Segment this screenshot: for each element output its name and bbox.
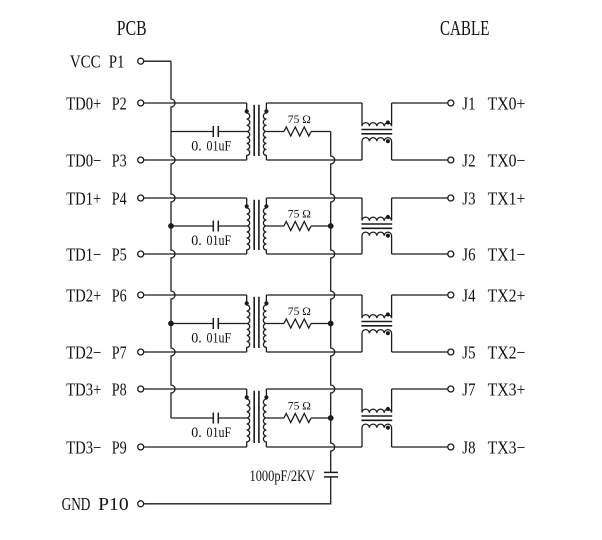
label TD1− P5: [66, 244, 127, 264]
wire T1 secondary top to choke L1: [266, 102, 362, 104]
label J8 TX3−: [462, 437, 525, 457]
junction dot left bus / C2 branch: [168, 223, 174, 229]
transformer T1 primary winding: [247, 103, 250, 160]
label J1 TX0+: [462, 93, 525, 113]
transformer T2 secondary winding: [263, 198, 266, 254]
svg-text:75 Ω: 75 Ω: [288, 304, 311, 318]
svg-text:VCC: VCC: [70, 51, 101, 71]
svg-text:J7: J7: [462, 379, 475, 399]
capacitor C5 bottom plate: [324, 476, 338, 478]
choke L1 bottom phase dot: [386, 139, 390, 143]
wire P7 to transformer T3 primary bottom: [144, 351, 247, 353]
wire C2 to T2 primary center tap: [218, 225, 246, 227]
wire C1 to T1 primary center tap: [218, 131, 246, 133]
svg-text:01uF: 01uF: [207, 425, 232, 441]
capacitor C2 left plate: [212, 221, 214, 232]
wire T3 secondary bottom to choke L3: [266, 351, 362, 353]
transformer T2 primary winding: [247, 198, 250, 254]
wire C4 to T4 primary center tap: [218, 417, 246, 419]
label J4 TX2+: [462, 285, 525, 305]
choke L4 bottom phase dot: [386, 426, 390, 430]
svg-text:TD0−: TD0−: [66, 150, 101, 170]
svg-text:TD3−: TD3−: [66, 437, 101, 457]
svg-text:75 Ω: 75 Ω: [288, 207, 311, 221]
svg-text:TX2−: TX2−: [488, 342, 526, 362]
svg-text:TX0+: TX0+: [488, 93, 526, 113]
choke L2 top phase dot: [386, 215, 390, 219]
svg-text:TD1+: TD1+: [66, 188, 101, 208]
wire choke L1 to J2: [392, 159, 448, 161]
terminal J5 (TX2−): [448, 349, 454, 355]
capacitor C3 left plate: [212, 318, 214, 329]
choke L3 core line 2: [361, 325, 392, 327]
wire left bus to C1: [171, 131, 213, 133]
svg-text:J4: J4: [462, 285, 475, 305]
resistor R2 75 ohm: [284, 222, 311, 231]
choke L3 bottom phase dot: [386, 331, 390, 335]
svg-text:01uF: 01uF: [207, 233, 232, 249]
label J2 TX0−: [462, 150, 525, 170]
transformer T1 core line 2: [258, 105, 260, 156]
capacitor C4 right plate: [217, 413, 219, 424]
wire left bus to C3: [171, 323, 213, 325]
capacitor C3 right plate: [217, 318, 219, 329]
junction dot right bus / R3: [328, 321, 334, 327]
junction dot right bus / R4: [328, 415, 334, 421]
wire left bus to C2: [171, 225, 213, 227]
wire P6 to transformer T3 primary top: [144, 294, 247, 296]
transformer T2 secondary phase dot: [264, 204, 268, 208]
terminal P5 (TD1−): [138, 251, 144, 257]
transformer T4 primary winding: [247, 389, 250, 447]
transformer T4 core line 1: [253, 391, 255, 443]
wire P4 to transformer T2 primary top: [144, 197, 247, 199]
svg-text:TD1−: TD1−: [66, 244, 101, 264]
label J5 TX2−: [462, 342, 525, 362]
label TD1+ P4: [66, 188, 127, 208]
wire right termination bus (vertical, hops over signal lines): [331, 132, 335, 473]
svg-text:J8: J8: [462, 437, 475, 457]
wire C3 to T3 primary center tap: [218, 323, 246, 325]
svg-text:TD3+: TD3+: [66, 379, 101, 399]
wire T4 secondary top to choke L4: [266, 388, 362, 390]
label TD3− P9: [66, 437, 127, 457]
wire choke L2 to J6: [392, 253, 448, 255]
choke L2 core line 1: [361, 223, 392, 225]
wire choke L2 to J3: [392, 197, 448, 199]
terminal P1 (VCC): [138, 58, 144, 64]
label C4 value 0.01uF: [191, 425, 231, 441]
choke L4 top winding: [362, 389, 392, 413]
transformer T3 primary winding: [247, 295, 250, 352]
svg-text:P4: P4: [112, 188, 127, 208]
wire T1 secondary bottom to choke L1: [266, 159, 362, 161]
label TD3+ P8: [66, 379, 127, 399]
wire R4 to right bus: [311, 417, 331, 419]
terminal J3 (TX1+): [448, 195, 454, 201]
label TD0+ P2: [66, 93, 127, 113]
terminal P7 (TD2−): [138, 349, 144, 355]
svg-text:P6: P6: [112, 285, 127, 305]
wire choke L3 to J4: [392, 294, 448, 296]
choke L1 top phase dot: [386, 120, 390, 124]
svg-text:75 Ω: 75 Ω: [288, 399, 311, 413]
transformer T2 core line 1: [253, 200, 255, 250]
choke L2 bottom winding: [362, 232, 392, 254]
transformer T1 secondary winding: [263, 103, 266, 160]
transformer T4 secondary phase dot: [264, 395, 268, 399]
terminal P2 (TD0+): [138, 100, 144, 106]
transformer T2 core line 2: [258, 200, 260, 250]
choke L3 bottom winding: [362, 330, 392, 352]
wire choke L1 to J1: [392, 102, 448, 104]
svg-text:P1: P1: [109, 51, 125, 71]
wire left VCC bus (vertical, hops over TD lines): [171, 61, 175, 418]
transformer T1 core line 1: [253, 105, 255, 156]
label TD2− P7: [66, 342, 127, 362]
svg-text:TX0−: TX0−: [488, 150, 526, 170]
svg-text:TX3−: TX3−: [488, 437, 526, 457]
label C3 value 0.01uF: [191, 331, 231, 347]
wire choke L3 to J5: [392, 351, 448, 353]
transformer T3 secondary phase dot: [264, 301, 268, 305]
choke L2 top winding: [362, 198, 392, 221]
transformer T3 core line 1: [253, 297, 255, 348]
svg-text:01uF: 01uF: [207, 139, 232, 155]
svg-text:01uF: 01uF: [207, 331, 232, 347]
terminal J8 (TX3−): [448, 444, 454, 450]
svg-text:J6: J6: [462, 244, 475, 264]
svg-text:TX1−: TX1−: [488, 244, 526, 264]
terminal P3 (TD0−): [138, 157, 144, 163]
transformer T3 secondary winding: [263, 295, 266, 352]
svg-text:P3: P3: [112, 150, 127, 170]
transformer T1 primary phase dot: [245, 109, 249, 113]
terminal J2 (TX0−): [448, 157, 454, 163]
capacitor C1 left plate: [212, 126, 214, 137]
wire VCC P1 to left bus: [144, 60, 171, 62]
svg-text:J2: J2: [462, 150, 475, 170]
label VCC P1: [70, 51, 125, 71]
terminal P6 (TD2+): [138, 292, 144, 298]
label J7 TX3+: [462, 379, 525, 399]
wire P2 to transformer T1 primary top: [144, 102, 247, 104]
wire T2 secondary center tap to R2: [266, 225, 284, 227]
choke L2 core line 2: [361, 227, 392, 229]
transformer T3 core line 2: [258, 297, 260, 348]
choke L3 top winding: [362, 295, 392, 318]
terminal P4 (TD1+): [138, 195, 144, 201]
resistor R3 75 ohm: [284, 319, 311, 328]
junction dot left bus / C3 branch: [168, 321, 174, 327]
choke L1 core line 2: [361, 133, 392, 135]
transformer T4 core line 2: [258, 391, 260, 443]
wire choke L4 to J7: [392, 388, 448, 390]
transformer T1 secondary phase dot: [264, 109, 268, 113]
transformer T3 primary phase dot: [245, 301, 249, 305]
svg-text:P9: P9: [112, 437, 127, 457]
svg-text:75 Ω: 75 Ω: [288, 112, 311, 126]
svg-text:PCB: PCB: [117, 16, 147, 40]
svg-text:0.: 0.: [191, 139, 202, 155]
wire choke L4 to J8: [392, 446, 448, 448]
terminal J1 (TX0+): [448, 100, 454, 106]
wire P5 to transformer T2 primary bottom: [144, 253, 247, 255]
wire T4 secondary center tap to R4: [266, 417, 284, 419]
svg-text:P10: P10: [98, 494, 128, 514]
terminal J7 (TX3+): [448, 386, 454, 392]
label GND P10: [62, 494, 129, 514]
wire P3 to transformer T1 primary bottom: [144, 159, 247, 161]
svg-text:TD2+: TD2+: [66, 285, 101, 305]
label TD0− P3: [66, 150, 127, 170]
wire T4 secondary bottom to choke L4: [266, 446, 362, 448]
transformer T2 primary phase dot: [245, 204, 249, 208]
svg-text:P8: P8: [112, 379, 127, 399]
resistor R4 75 ohm: [284, 414, 311, 423]
label TD2+ P6: [66, 285, 127, 305]
svg-text:P5: P5: [112, 244, 127, 264]
wire R3 to right bus: [311, 323, 331, 325]
svg-text:0.: 0.: [191, 233, 202, 249]
resistor R1 75 ohm: [284, 127, 311, 136]
terminal J4 (TX2+): [448, 292, 454, 298]
capacitor C2 right plate: [217, 221, 219, 232]
svg-text:1000pF/2KV: 1000pF/2KV: [250, 468, 316, 485]
wire GND P10 to C5: [144, 477, 331, 504]
wire T2 secondary top to choke L2: [266, 197, 362, 199]
choke L4 core line 1: [361, 415, 392, 417]
svg-text:TX3+: TX3+: [488, 379, 526, 399]
svg-text:TX1+: TX1+: [488, 188, 526, 208]
terminal J6 (TX1−): [448, 251, 454, 257]
wire R2 to right bus: [311, 225, 331, 227]
svg-text:0.: 0.: [191, 425, 202, 441]
wire T3 secondary center tap to R3: [266, 323, 284, 325]
wire R1 to right bus: [311, 131, 331, 133]
label C2 value 0.01uF: [191, 233, 231, 249]
wire T3 secondary top to choke L3: [266, 294, 362, 296]
svg-text:TX2+: TX2+: [488, 285, 526, 305]
svg-text:P7: P7: [112, 342, 127, 362]
svg-text:TD0+: TD0+: [66, 93, 101, 113]
capacitor C1 right plate: [217, 126, 219, 137]
terminal P9 (TD3−): [138, 444, 144, 450]
terminal P8 (TD3+): [138, 386, 144, 392]
choke L2 bottom phase dot: [386, 234, 390, 238]
choke L1 top winding: [362, 103, 392, 126]
junction dot right bus / R2: [328, 223, 334, 229]
label J3 TX1+: [462, 188, 525, 208]
wire T2 secondary bottom to choke L2: [266, 253, 362, 255]
svg-text:P2: P2: [112, 93, 127, 113]
svg-text:GND: GND: [62, 494, 91, 514]
choke L4 bottom winding: [362, 424, 392, 447]
choke L3 top phase dot: [386, 312, 390, 316]
svg-text:TD2−: TD2−: [66, 342, 101, 362]
capacitor C5 top plate: [324, 471, 338, 473]
wire P8 to transformer T4 primary top: [144, 388, 247, 390]
wire P9 to transformer T4 primary bottom: [144, 446, 247, 448]
choke L4 core line 2: [361, 419, 392, 421]
svg-text:0.: 0.: [191, 331, 202, 347]
transformer T4 secondary winding: [263, 389, 266, 447]
wire left bus corner to C4 branch: [171, 417, 213, 419]
choke L3 core line 1: [361, 321, 392, 323]
choke L1 bottom winding: [362, 138, 392, 160]
wire T1 secondary center tap to R1: [266, 131, 284, 133]
capacitor C4 left plate: [212, 413, 214, 424]
svg-text:J3: J3: [462, 188, 475, 208]
svg-text:J5: J5: [462, 342, 475, 362]
choke L1 core line 1: [361, 129, 392, 131]
label C1 value 0.01uF: [191, 139, 231, 155]
svg-text:CABLE: CABLE: [440, 16, 489, 40]
label J6 TX1−: [462, 244, 525, 264]
transformer T4 primary phase dot: [245, 395, 249, 399]
svg-text:J1: J1: [462, 93, 475, 113]
choke L4 top phase dot: [386, 407, 390, 411]
terminal P10 (GND): [138, 501, 144, 507]
